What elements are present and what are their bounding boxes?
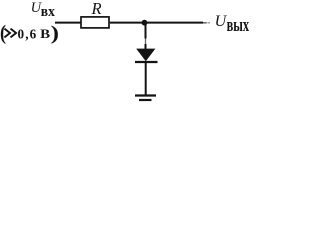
svg-text:(: ( [0,22,6,44]
svg-text:вых: вых [227,16,249,36]
svg-text:0,6: 0,6 [18,26,38,41]
svg-text:В: В [40,28,50,42]
svg-text:): ) [51,22,59,44]
svg-text:R: R [91,0,102,18]
svg-text:вх: вх [41,3,56,20]
